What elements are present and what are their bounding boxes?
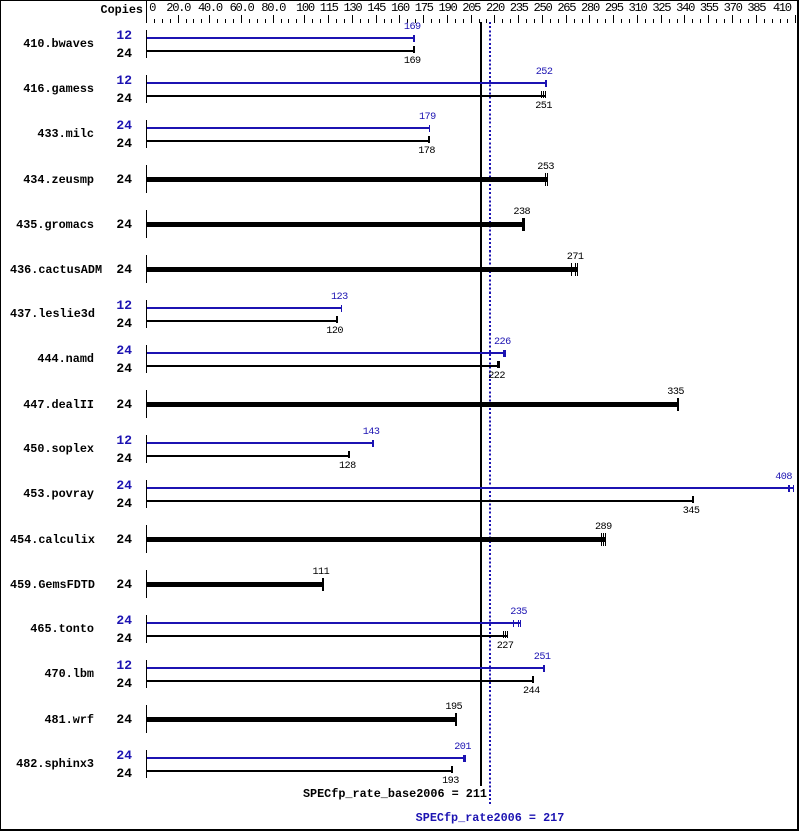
- border frame: [0, 0, 799, 1]
- row 435.gromacs: [146, 210, 148, 238]
- header Copies: [60, 4, 143, 16]
- label SPECfp_rate_base2006: [287, 788, 487, 800]
- row 450.soplex: [146, 435, 148, 463]
- row 459.GemsFDTD: [146, 570, 148, 598]
- row 410.bwaves: [146, 30, 148, 58]
- row 470.lbm: [146, 660, 148, 688]
- axis tick marks: [154, 19, 155, 23]
- row 447.dealII: [146, 390, 148, 418]
- mean line SPECfp_rate2006=217 (dotted): [489, 22, 491, 806]
- row 465.tonto: [146, 615, 148, 643]
- row 433.milc: [146, 120, 148, 148]
- axis scale labels: [149, 3, 155, 14]
- row 436.cactusADM: [146, 255, 148, 283]
- label SPECfp_rate2006: [390, 812, 590, 824]
- column divider / 0 tick: [146, 1, 148, 23]
- row 416.gamess: [146, 75, 148, 103]
- row 454.calculix: [146, 525, 148, 553]
- row 482.sphinx3: [146, 750, 148, 778]
- row 437.leslie3d: [146, 300, 148, 328]
- row 434.zeusmp: [146, 165, 148, 193]
- row 444.namd: [146, 345, 148, 373]
- row 481.wrf: [146, 705, 148, 733]
- row 453.povray: [146, 480, 148, 508]
- mean line SPECfp_rate_base2006=211: [480, 22, 482, 786]
